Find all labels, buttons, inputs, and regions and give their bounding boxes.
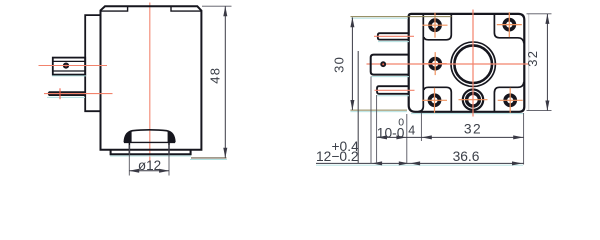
- svg-text:32: 32: [525, 50, 540, 67]
- dimension 48: [190, 6, 232, 159]
- bolt hole bottom-left: [422, 88, 447, 113]
- small hole mid-left: [424, 52, 447, 75]
- top-right hole boss: [494, 14, 524, 43]
- armature tube dome: [124, 130, 175, 143]
- svg-text:4: 4: [408, 123, 415, 137]
- svg-text:12−0.2: 12−0.2: [316, 149, 359, 164]
- middle block shadow fringe: [371, 76, 409, 78]
- faint face line right: [528, 14, 530, 111]
- upper pin (front): [378, 33, 409, 39]
- middle block hole: [380, 61, 386, 67]
- svg-text:36.6: 36.6: [453, 149, 480, 164]
- dimension 10 -0.4 and 4 (chained): [358, 51, 421, 163]
- terminal retention hole: [63, 63, 69, 69]
- dome left wall section: [125, 131, 132, 142]
- bolt hole top-left: [423, 13, 448, 38]
- lower pin shadow fringe: [377, 95, 409, 97]
- lower pin centerline: [375, 89, 415, 91]
- bolt hole bottom-right: [498, 88, 523, 113]
- lower pin (front): [377, 86, 409, 94]
- upper pin shadow fringe: [378, 41, 409, 43]
- mounting flange (side): [85, 15, 100, 111]
- svg-text:48: 48: [208, 67, 223, 84]
- tube left edge: [128, 142, 130, 154]
- upper spade terminal block: [53, 58, 85, 75]
- plate centerline vertical: [472, 10, 474, 117]
- middle terminal block (front): [371, 55, 409, 75]
- dimension 12 +0.4/-0.2: [316, 77, 409, 166]
- bolt hole top-right: [497, 12, 522, 37]
- dome base line: [124, 141, 175, 143]
- blade shadow fringe: [47, 96, 85, 98]
- dimension 32 right: [525, 14, 552, 111]
- svg-text:32: 32: [464, 121, 482, 136]
- svg-text:ø12: ø12: [138, 158, 161, 173]
- dimension 36.6: [316, 149, 524, 165]
- svg-text:0: 0: [398, 117, 404, 129]
- bottom lip plate: [111, 150, 191, 155]
- dimension 30: [332, 17, 452, 112]
- center bore outer circle: [451, 42, 495, 86]
- dome right wall section: [168, 131, 175, 142]
- bottom-right hole boss: [494, 82, 524, 112]
- dimension 32 bottom: [421, 113, 523, 165]
- terminal shadow fringe: [52, 75, 86, 77]
- terminal centerline: [39, 65, 108, 67]
- tube right edge: [168, 142, 170, 154]
- top-left hole boss: [424, 14, 451, 40]
- svg-text:30: 30: [332, 56, 347, 73]
- flange plate outline: [409, 14, 525, 112]
- coil body outline: [101, 6, 202, 150]
- top step line right segment: [171, 7, 201, 11]
- top step line left segment: [101, 7, 127, 11]
- center bore inner circle: [454, 45, 492, 83]
- plate bottom shadow fringe: [411, 113, 524, 115]
- centerline vertical (coil axis): [149, 3, 151, 164]
- bottom-left hole boss: [424, 87, 451, 111]
- blade centerline: [44, 88, 113, 99]
- dimension Ø12: [129, 145, 169, 176]
- small center hole below bore: [459, 90, 488, 110]
- lower spade terminal blade: [48, 91, 85, 96]
- milled face boundary left: [419, 14, 424, 111]
- lip shadow fringe: [110, 155, 191, 157]
- upper pin centerline: [374, 35, 414, 37]
- plate centerline horizontal: [367, 63, 529, 65]
